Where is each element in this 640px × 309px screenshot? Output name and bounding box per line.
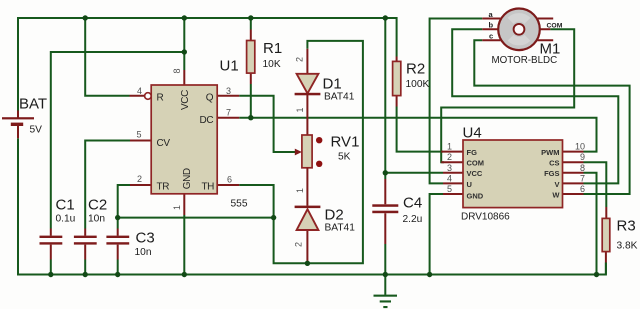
- svg-text:D2: D2: [325, 207, 344, 224]
- resistor R3 body: [602, 218, 610, 251]
- node R1 to DC: [248, 115, 253, 120]
- 555 pin number 5: [136, 130, 141, 140]
- wire top power rail from battery to R2: [18, 18, 397, 111]
- U4 pin number 3: [447, 163, 452, 173]
- svg-text:1: 1: [172, 205, 182, 210]
- svg-text:5V: 5V: [30, 125, 43, 136]
- resistor R2 label: [406, 61, 425, 78]
- resistor R2 pins: [396, 57, 398, 107]
- capacitor C3 pins: [117, 229, 119, 260]
- wire 555 pin8 VCC vertical: [183, 18, 185, 70]
- capacitor C4 label: [403, 195, 422, 212]
- capacitor C2 value 10n: [88, 214, 105, 225]
- driver U4 label: [463, 125, 482, 142]
- U4 pin number 8: [580, 163, 585, 173]
- U4 pin name COM: [467, 159, 485, 168]
- diode D1 pins: [306, 49, 308, 135]
- svg-text:5: 5: [447, 184, 452, 194]
- wire motor a to U4 pin4 U: [430, 19, 483, 184]
- 555 pin number 8 rotated: [172, 68, 182, 73]
- svg-text:RV1: RV1: [331, 134, 360, 151]
- 555 pin name CV: [157, 138, 171, 149]
- U4 pin name GND: [467, 192, 484, 201]
- resistor R1 pins: [250, 30, 252, 85]
- svg-text:9: 9: [580, 152, 585, 162]
- svg-text:c: c: [489, 32, 493, 41]
- capacitor C1 pins: [50, 229, 52, 260]
- wire R1 bottom lead to DC node: [250, 84, 252, 118]
- svg-text:7: 7: [580, 173, 585, 183]
- svg-text:U1: U1: [220, 58, 239, 75]
- svg-text:100K: 100K: [406, 79, 430, 90]
- wire VCC vertical to C4 and U4 pin3: [384, 18, 386, 179]
- wire C1 bottom lead to rail: [50, 260, 52, 275]
- potentiometer RV1 value 5K: [338, 152, 351, 163]
- svg-text:2: 2: [447, 152, 452, 162]
- diode D2 pin number 1: [295, 188, 305, 193]
- node rail U4 GND: [427, 272, 432, 277]
- svg-text:DRV10866: DRV10866: [461, 211, 510, 222]
- capacitor C1 value 0.1u: [56, 214, 76, 225]
- svg-text:PWM: PWM: [541, 148, 559, 157]
- U4 pin number 5: [447, 184, 452, 194]
- capacitor C3 label: [136, 230, 155, 247]
- motor M1 type MOTOR-BLDC: [492, 55, 558, 66]
- wire 555 pin4 R from top rail: [85, 18, 129, 96]
- diode D1 pin number 2: [295, 57, 305, 62]
- op 555 timer U1 label: [220, 58, 239, 75]
- node D2 anode: [305, 261, 310, 266]
- wire R1 top lead to rail: [250, 18, 252, 30]
- 555 pin number 2: [137, 174, 142, 184]
- motor pin label b: [489, 21, 494, 30]
- svg-text:W: W: [552, 190, 560, 199]
- resistor R2 body: [393, 61, 401, 95]
- node TH branch: [271, 215, 276, 220]
- svg-text:R1: R1: [263, 40, 282, 57]
- U4 pin number 4: [447, 173, 452, 183]
- wire motor c to U4 pin6 W: [474, 40, 629, 194]
- capacitor C1 plates: [40, 236, 63, 245]
- wire bottom ground rail: [18, 138, 606, 274]
- svg-text:V: V: [554, 180, 559, 189]
- battery BAT pins: [17, 111, 19, 139]
- capacitor C4 value 2.2u: [403, 214, 423, 225]
- svg-text:BAT41: BAT41: [325, 223, 356, 234]
- svg-text:GND: GND: [467, 192, 484, 201]
- diode D1 symbol: [295, 74, 321, 96]
- U4 pin number 6: [580, 184, 585, 194]
- svg-text:8: 8: [580, 163, 585, 173]
- 555 pin name VCC rotated: [180, 90, 191, 110]
- svg-text:555: 555: [231, 199, 248, 210]
- svg-text:2: 2: [295, 57, 305, 62]
- capacitor C4 pins: [384, 179, 386, 244]
- capacitor C3 plates: [106, 236, 129, 245]
- ground symbol: [374, 295, 398, 309]
- svg-text:1: 1: [447, 142, 452, 152]
- diode D1 pin number 1: [295, 107, 305, 112]
- resistor R1 label: [263, 40, 282, 57]
- resistor R3 label: [617, 218, 636, 235]
- diode D2 pin number 2: [294, 242, 304, 247]
- 555 pin number 4: [137, 86, 142, 96]
- node rail C3: [115, 272, 120, 277]
- motor M1 pins: [482, 19, 553, 41]
- svg-text:2.2u: 2.2u: [403, 214, 423, 225]
- svg-text:6: 6: [580, 184, 585, 194]
- motor M1 label: [540, 41, 561, 58]
- op 555 timer U1 pins: [130, 70, 240, 215]
- potentiometer RV1 label: [331, 134, 360, 151]
- diode D2 symbol: [295, 206, 321, 230]
- svg-text:1: 1: [295, 188, 305, 193]
- U4 pin name V: [554, 180, 559, 189]
- driver U4 type DRV10866: [461, 211, 510, 222]
- U4 pin name PWM: [541, 148, 559, 157]
- wire 555 pin7 DC to U4 PWM: [239, 118, 596, 152]
- op 555 timer U1 pin4 inversion bubble: [145, 93, 152, 100]
- svg-text:TH: TH: [201, 181, 214, 192]
- svg-text:C1: C1: [56, 197, 75, 214]
- svg-text:FGS: FGS: [544, 169, 559, 178]
- svg-text:C2: C2: [88, 197, 107, 214]
- svg-text:10n: 10n: [135, 247, 152, 258]
- svg-text:CV: CV: [157, 138, 171, 149]
- wire U4 pin9 CS to R3 top: [584, 162, 607, 207]
- 555 pin name GND rotated: [182, 168, 193, 189]
- node y52 at 555 VCC: [182, 49, 187, 54]
- U4 pin number 9: [580, 152, 585, 162]
- capacitor C1 label: [56, 197, 75, 214]
- motor pin label a: [489, 10, 494, 19]
- motor pin label COM: [547, 22, 563, 29]
- wire U4 pin8 FGS to ground rail: [584, 173, 597, 275]
- svg-text:4: 4: [137, 86, 142, 96]
- svg-text:MOTOR-BLDC: MOTOR-BLDC: [492, 55, 558, 66]
- svg-text:7: 7: [226, 108, 231, 118]
- motor M1 body: [498, 9, 540, 51]
- svg-text:10: 10: [575, 142, 585, 152]
- svg-text:BAT: BAT: [19, 96, 47, 113]
- svg-text:R: R: [157, 93, 164, 104]
- wire 555 pin3 Q to RV1 wiper: [239, 96, 295, 152]
- U4 pin name CS: [549, 159, 559, 168]
- 555 pin number 7: [226, 108, 231, 118]
- resistor R1 body: [247, 41, 255, 74]
- wire VCC branch at y52 to C1: [51, 52, 185, 229]
- svg-text:GND: GND: [182, 168, 193, 189]
- 555 pin name Q: [206, 93, 214, 104]
- U4 pin number 2: [447, 152, 452, 162]
- svg-text:0.1u: 0.1u: [56, 214, 76, 225]
- svg-text:5K: 5K: [338, 152, 351, 163]
- U4 pin number 7: [580, 173, 585, 183]
- svg-text:5: 5: [136, 130, 141, 140]
- node VCC C4 U4: [383, 170, 388, 175]
- capacitor C2 pins: [84, 229, 86, 260]
- wire C2 bottom lead to rail: [84, 260, 86, 275]
- node top rail at 555 VCC: [182, 15, 187, 20]
- wire C3 top lead from node: [117, 218, 119, 229]
- battery BAT plates: [2, 117, 34, 126]
- svg-text:R2: R2: [406, 61, 425, 78]
- resistor R1 value 10K: [263, 59, 281, 70]
- potentiometer RV1 terminal dot top: [316, 137, 322, 143]
- resistor R3 value 3.8K: [617, 241, 638, 252]
- wire ground symbol stem: [384, 275, 386, 295]
- U4 pin name FGS: [544, 169, 559, 178]
- wire R2 bottom to U4 pin1 FG: [397, 107, 443, 152]
- wire motor b to U4 pin7 V: [452, 29, 618, 183]
- svg-text:COM: COM: [467, 159, 485, 168]
- svg-text:10K: 10K: [263, 59, 281, 70]
- wire C3 bottom lead to rail: [117, 260, 119, 275]
- node rail C2: [83, 272, 88, 277]
- svg-text:Q: Q: [206, 93, 214, 104]
- svg-text:U: U: [467, 180, 472, 189]
- svg-text:3: 3: [226, 86, 231, 96]
- svg-text:FG: FG: [467, 148, 478, 157]
- wire motor COM to U4 pin2 COM: [441, 29, 574, 162]
- wire 555 pin5 CV to C2: [85, 141, 130, 229]
- node TR C3: [115, 215, 120, 220]
- svg-text:2: 2: [294, 242, 304, 247]
- svg-text:3.8K: 3.8K: [617, 241, 638, 252]
- capacitor C2 label: [88, 197, 107, 214]
- svg-text:D1: D1: [323, 76, 342, 93]
- op 555 timer U1 type 555: [231, 199, 248, 210]
- wire VCC node to U4 pin3: [385, 172, 443, 174]
- driver U4 DRV10866 pins: [441, 152, 583, 194]
- capacitor C2 plates: [74, 236, 97, 245]
- wire U4 pin5 GND to rail: [430, 194, 443, 275]
- diode D2 value BAT41: [325, 223, 356, 234]
- op 555 timer U1 body: [151, 85, 217, 194]
- node rail 555 GND: [182, 272, 187, 277]
- U4 pin number 1: [447, 142, 452, 152]
- svg-text:U4: U4: [463, 125, 482, 142]
- potentiometer RV1 body: [302, 135, 312, 168]
- svg-text:3: 3: [447, 163, 452, 173]
- diode D1 value BAT41: [324, 92, 355, 103]
- svg-text:2: 2: [137, 174, 142, 184]
- svg-text:VCC: VCC: [180, 90, 191, 110]
- 555 pin number 3: [226, 86, 231, 96]
- node rail ground symbol: [383, 272, 388, 277]
- 555 pin number 6: [227, 175, 232, 185]
- resistor R3 pins: [605, 207, 607, 263]
- svg-text:DC: DC: [200, 115, 214, 126]
- U4 pin number 10: [575, 142, 585, 152]
- wire 555 pin2 TR to node: [118, 185, 274, 218]
- wire C4 bottom lead to rail: [384, 244, 386, 275]
- 555 pin name TR: [157, 181, 170, 192]
- battery value 5V: [30, 125, 43, 136]
- node rail FGS: [594, 272, 599, 277]
- 555 pin number 1 rotated: [172, 205, 182, 210]
- 555 pin name TH: [201, 181, 214, 192]
- driver U4 body: [463, 140, 563, 208]
- svg-text:8: 8: [172, 68, 182, 73]
- motor pin label c: [489, 32, 493, 41]
- node top rail at R1: [248, 15, 253, 20]
- svg-text:C3: C3: [136, 230, 155, 247]
- capacitor C4 plates: [372, 204, 398, 213]
- svg-text:10n: 10n: [88, 214, 105, 225]
- node rail C1: [48, 272, 53, 277]
- svg-text:BAT41: BAT41: [324, 92, 355, 103]
- svg-text:4: 4: [447, 173, 452, 183]
- diode D2 pins: [306, 168, 308, 263]
- battery label BAT: [19, 96, 47, 113]
- resistor R2 value 100K: [406, 79, 430, 90]
- wire R3 bottom lead to rail end: [605, 263, 607, 275]
- svg-text:TR: TR: [157, 181, 170, 192]
- svg-text:R3: R3: [617, 218, 636, 235]
- node top rail at pin4 branch: [83, 15, 88, 20]
- diode D2 label: [325, 207, 344, 224]
- U4 pin name W: [552, 190, 560, 199]
- svg-text:6: 6: [227, 175, 232, 185]
- wire 555 pin6 TH down to node: [239, 185, 273, 218]
- wire 555 pin1 GND to rail: [183, 215, 185, 275]
- 555 pin name DC: [200, 115, 214, 126]
- svg-text:COM: COM: [547, 22, 563, 29]
- diode D1 label: [323, 76, 342, 93]
- potentiometer RV1 terminal dot bottom: [316, 161, 322, 167]
- capacitor C3 value 10n: [135, 247, 152, 258]
- U4 pin name FG: [467, 148, 478, 157]
- 555 pin name R: [157, 93, 164, 104]
- U4 pin name U: [467, 180, 472, 189]
- svg-text:1: 1: [295, 107, 305, 112]
- svg-text:CS: CS: [549, 159, 559, 168]
- svg-text:b: b: [489, 21, 494, 30]
- U4 pin name VCC: [467, 169, 483, 178]
- svg-text:C4: C4: [403, 195, 422, 212]
- potentiometer RV1 wiper arrow: [295, 149, 302, 156]
- node top rail at C4 branch: [383, 15, 388, 20]
- svg-text:VCC: VCC: [467, 169, 483, 178]
- wire node to D2 anode and box to D1 anode: [274, 41, 363, 263]
